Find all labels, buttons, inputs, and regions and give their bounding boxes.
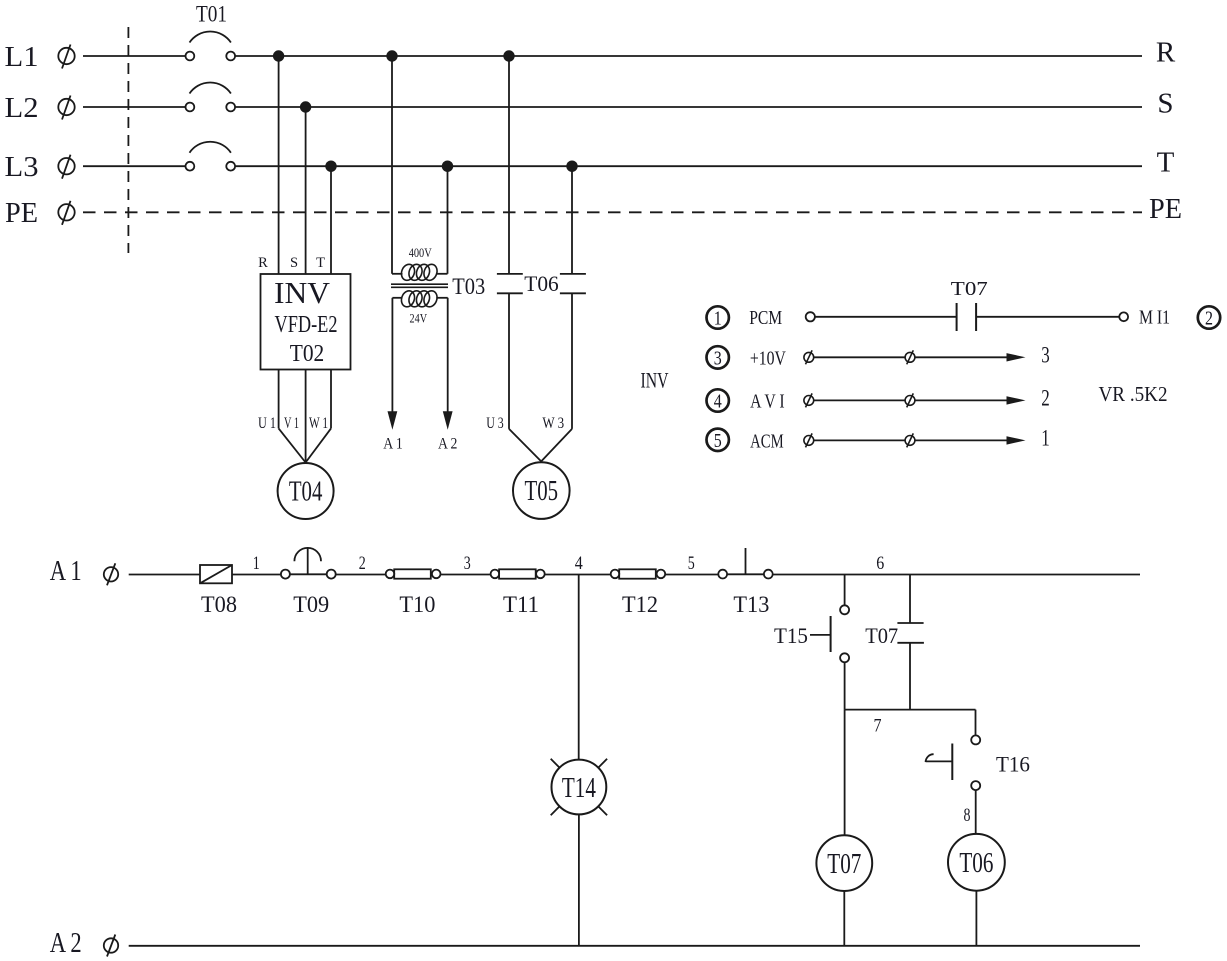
- svg-text:3: 3: [464, 553, 471, 574]
- svg-text:W 1: W 1: [309, 415, 328, 432]
- svg-text:T09: T09: [293, 592, 329, 617]
- wire W3 diagonal: [541, 429, 572, 462]
- wire ACM segment 1: [814, 439, 906, 441]
- boundary dashed line: [127, 27, 129, 253]
- junction dot L3-T06: [566, 161, 577, 172]
- junction dot L3-T03: [442, 161, 453, 172]
- svg-text:T07: T07: [827, 849, 861, 880]
- coil T06: [948, 834, 1005, 891]
- fuse T10: [386, 569, 441, 578]
- svg-text:8: 8: [964, 805, 971, 826]
- svg-text:R: R: [258, 255, 268, 271]
- wire T07 cap branch: [909, 575, 911, 624]
- svg-text:A 1: A 1: [383, 436, 403, 453]
- svg-text:4: 4: [575, 553, 583, 574]
- junction dot L1-R: [273, 50, 284, 61]
- svg-text:T07: T07: [951, 278, 988, 300]
- wire V1 output: [305, 370, 307, 464]
- wire PCM to T07: [815, 316, 957, 318]
- transformer T03: [391, 262, 448, 308]
- terminal circled 3: [707, 346, 729, 369]
- terminal phi ACM right: [905, 433, 915, 447]
- wire A1 rail seg5: [545, 574, 611, 576]
- svg-text:T05: T05: [525, 475, 559, 507]
- svg-text:5: 5: [688, 553, 695, 574]
- wire T07 to MI1: [976, 316, 1119, 318]
- wire coil T06 to A2: [975, 891, 977, 946]
- breaker T01 pole 3: [186, 142, 236, 171]
- svg-text:1: 1: [1041, 426, 1050, 451]
- svg-text:T01: T01: [196, 2, 227, 27]
- svg-text:400V: 400V: [409, 245, 432, 260]
- svg-text:1: 1: [253, 553, 260, 574]
- breaker T01 pole 2: [186, 83, 236, 112]
- svg-text:A 2: A 2: [438, 436, 458, 453]
- wire T14 to A2: [578, 814, 580, 945]
- svg-text:T07: T07: [865, 623, 898, 648]
- svg-text:PE: PE: [1149, 193, 1182, 225]
- contact T15: [810, 605, 849, 662]
- wire T14 branch: [578, 575, 580, 760]
- node L1 label: [5, 41, 75, 73]
- wire coil T07 to A2: [843, 891, 845, 946]
- svg-text:R: R: [1156, 37, 1176, 69]
- wire R drop: [278, 56, 280, 274]
- wire T16 branch: [975, 710, 977, 736]
- svg-text:T16: T16: [996, 752, 1030, 777]
- svg-text:T04: T04: [289, 476, 323, 508]
- terminal circled 4: [707, 389, 729, 412]
- svg-text:U 1: U 1: [258, 415, 276, 432]
- svg-text:ACM: ACM: [750, 430, 784, 452]
- wire A1 rail seg1: [129, 574, 200, 576]
- svg-text:T12: T12: [622, 592, 658, 617]
- fuse T12: [611, 569, 666, 578]
- terminal phi AVI left: [804, 393, 814, 407]
- svg-text:T14: T14: [562, 773, 596, 804]
- svg-text:L1: L1: [5, 41, 39, 73]
- terminal circled 5: [707, 429, 729, 452]
- svg-text:2: 2: [359, 553, 366, 574]
- terminal phi ACM left: [804, 433, 814, 447]
- node L3 label: [5, 151, 75, 183]
- svg-text:5: 5: [714, 430, 722, 452]
- svg-text:VR .5K2: VR .5K2: [1099, 382, 1168, 406]
- wire ACM arrow to 1: [915, 436, 1026, 444]
- contact T13: [718, 548, 772, 578]
- svg-text:VFD-E2: VFD-E2: [275, 312, 338, 338]
- svg-text:T13: T13: [733, 592, 769, 617]
- svg-text:T02: T02: [290, 341, 325, 367]
- wire U1 diagonal: [279, 428, 306, 462]
- wire 10V segment 1: [814, 356, 906, 358]
- wire T15 to node7: [844, 662, 846, 709]
- node PE label: [5, 197, 75, 229]
- svg-text:2: 2: [1041, 386, 1050, 411]
- svg-text:L2: L2: [5, 92, 39, 124]
- svg-text:T: T: [316, 255, 325, 271]
- fuse T11: [491, 569, 545, 578]
- wire S drop: [305, 107, 307, 274]
- svg-text:M I1: M I1: [1139, 307, 1170, 329]
- junction dot L3-T: [325, 161, 336, 172]
- node L2 label: [5, 92, 75, 124]
- svg-text:3: 3: [1041, 342, 1050, 367]
- motor T05: [513, 462, 570, 519]
- capacitor T06 right feed: [571, 166, 573, 274]
- svg-text:W 3: W 3: [542, 415, 564, 432]
- transformer T03 primary feed left: [391, 56, 393, 274]
- svg-text:24V: 24V: [410, 310, 428, 325]
- wire L3 rail: [83, 165, 1142, 167]
- wire T07 cap to node7: [909, 643, 911, 710]
- wire U3 diagonal: [509, 429, 541, 462]
- wire AVI arrow to 2: [915, 396, 1026, 404]
- wire 10V arrow to 3: [915, 353, 1026, 361]
- node A2 label: [50, 927, 119, 959]
- svg-text:2: 2: [1205, 308, 1213, 330]
- terminal circled 2: [1198, 306, 1220, 329]
- wire T drop: [330, 166, 332, 274]
- terminal phi AVI right: [905, 393, 915, 407]
- wire A2 secondary: [443, 298, 453, 430]
- wire PE rail dashed: [83, 211, 1142, 213]
- node A1 label: [50, 555, 119, 587]
- svg-text:V 1: V 1: [284, 415, 299, 432]
- terminal phi 10V right: [905, 350, 915, 364]
- wire A1 rail seg3: [336, 574, 386, 576]
- junction dot L1-T03: [386, 50, 397, 61]
- svg-text:PCM: PCM: [749, 307, 782, 329]
- contact T07 control: [957, 303, 977, 331]
- svg-text:T06: T06: [959, 848, 993, 879]
- motor T04: [278, 463, 334, 519]
- wire W1 diagonal: [306, 428, 331, 462]
- wire T15 branch: [844, 575, 846, 606]
- wire node 7 bus: [845, 709, 976, 711]
- svg-text:T: T: [1157, 147, 1175, 179]
- svg-text:4: 4: [714, 391, 722, 413]
- wire coil T07 drop: [844, 710, 846, 836]
- svg-text:T08: T08: [201, 592, 237, 617]
- wire T16 to coil T06: [975, 790, 977, 834]
- fuse T08: [200, 565, 232, 583]
- wire A1 rail seg6: [665, 574, 718, 576]
- wire A1 rail seg4: [441, 574, 491, 576]
- wire L2 rail: [83, 106, 1142, 108]
- coil T07: [816, 835, 872, 891]
- svg-text:S: S: [1157, 88, 1173, 120]
- junction dot L2-S: [300, 101, 311, 112]
- svg-text:T03: T03: [452, 274, 485, 299]
- svg-text:T15: T15: [774, 623, 808, 648]
- contact T07 holding: [897, 623, 924, 643]
- transformer T03 primary feed right: [447, 166, 449, 274]
- svg-text:6: 6: [876, 553, 884, 574]
- capacitor T06 right: [560, 274, 586, 429]
- wire AVI segment 1: [814, 399, 906, 401]
- wire A1 rail seg2: [232, 574, 281, 576]
- wire A1 rail seg7: [773, 574, 1140, 576]
- svg-text:INV: INV: [641, 368, 669, 393]
- terminal PCM: [806, 312, 815, 321]
- wire A2 rail: [129, 945, 1140, 947]
- capacitor T06 left feed: [508, 56, 510, 274]
- inverter U1 box T02: [261, 274, 351, 370]
- terminal MI1: [1119, 312, 1128, 321]
- svg-text:T10: T10: [399, 592, 435, 617]
- breaker T01 pole 1: [186, 32, 236, 61]
- svg-text:3: 3: [714, 347, 722, 369]
- terminal circled 1: [707, 306, 729, 329]
- svg-text:A 1: A 1: [50, 555, 82, 587]
- lamp T14: [551, 759, 607, 815]
- svg-text:L3: L3: [5, 151, 39, 183]
- junction dot L1-T06: [503, 50, 514, 61]
- svg-text:PE: PE: [5, 197, 38, 229]
- svg-text:U 3: U 3: [486, 415, 504, 432]
- wire W1 output: [330, 370, 332, 429]
- svg-text:T06: T06: [524, 271, 559, 296]
- wire L1 rail: [83, 55, 1142, 57]
- wire A1 secondary: [388, 298, 398, 430]
- svg-text:+10V: +10V: [750, 347, 786, 369]
- terminal phi 10V left: [804, 350, 814, 364]
- capacitor T06 left: [497, 274, 523, 429]
- svg-text:S: S: [290, 255, 298, 271]
- svg-text:7: 7: [874, 716, 882, 737]
- svg-text:INV: INV: [274, 275, 331, 310]
- pushbutton T09: [281, 548, 336, 579]
- svg-text:A 2: A 2: [50, 927, 82, 959]
- contact T16: [926, 735, 981, 790]
- svg-text:1: 1: [714, 308, 722, 330]
- svg-text:T11: T11: [503, 592, 539, 617]
- wire U1 output: [278, 370, 280, 429]
- svg-text:A V I: A V I: [750, 390, 785, 412]
